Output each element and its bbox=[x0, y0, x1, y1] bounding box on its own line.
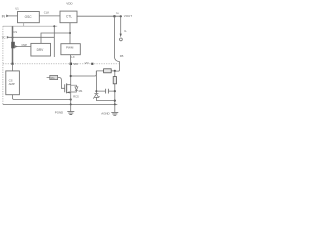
svg-text:CS: CS bbox=[13, 30, 17, 34]
svg-text:FB: FB bbox=[120, 54, 124, 58]
pin label SW lower bbox=[73, 62, 78, 66]
label PGND bbox=[55, 110, 63, 114]
left boundary bbox=[2, 26, 4, 104]
zener diode D3 bbox=[93, 94, 99, 99]
svg-text:CMP: CMP bbox=[22, 44, 28, 47]
label Io bbox=[116, 11, 119, 15]
wire IN arrow bbox=[9, 15, 18, 17]
node junction C bbox=[69, 32, 71, 34]
svg-text:Io: Io bbox=[116, 11, 119, 15]
wire U1 ground stub bbox=[23, 23, 25, 27]
wire load pin drop bbox=[120, 16, 122, 34]
node junction dot A bbox=[113, 15, 115, 17]
svg-text:RCS: RCS bbox=[73, 95, 79, 99]
svg-text:SW: SW bbox=[73, 62, 78, 66]
wire hop arc bbox=[114, 57, 119, 62]
block U1 (input stage) bbox=[18, 12, 40, 23]
wire block bottom bbox=[96, 100, 114, 102]
wire FB drop bbox=[115, 62, 120, 72]
svg-text:LX: LX bbox=[71, 55, 75, 59]
diode D1 (rectifier) bbox=[104, 69, 112, 73]
wire top-left rail bbox=[3, 25, 57, 27]
svg-text:RG: RG bbox=[51, 76, 55, 80]
bottom ground rail bbox=[3, 103, 117, 105]
svg-text:PWM: PWM bbox=[66, 45, 74, 49]
label CLK on wire bbox=[44, 10, 50, 14]
label at top of left net bbox=[13, 30, 17, 34]
wire U2 output to VOUT rail bbox=[77, 15, 122, 17]
ground PGND stem bbox=[70, 104, 72, 111]
node junction G bbox=[70, 75, 72, 77]
body diode D2 bbox=[71, 85, 77, 92]
wire block right vertical bbox=[114, 71, 116, 105]
svg-text:M1: M1 bbox=[79, 89, 83, 93]
node junction J bbox=[114, 100, 116, 102]
node IN label bbox=[2, 14, 6, 18]
svg-text:CTL: CTL bbox=[66, 15, 72, 19]
svg-text:AGND: AGND bbox=[101, 111, 109, 115]
wire rectifier top bbox=[96, 70, 115, 72]
node junction F bbox=[70, 98, 72, 100]
node junction I bbox=[114, 90, 116, 92]
load current arrow bbox=[120, 34, 122, 38]
node junction M bbox=[114, 103, 116, 105]
label M1 bbox=[79, 89, 83, 93]
wire U1 to U2 bbox=[39, 15, 60, 17]
svg-text:OSC: OSC bbox=[25, 15, 33, 19]
capacitor C1 bbox=[96, 90, 114, 92]
node junction K bbox=[95, 90, 97, 92]
pin square P2 (SW) bbox=[70, 63, 72, 65]
ground AGND symbol bbox=[111, 112, 118, 115]
wire SW branch to rectifier bbox=[71, 71, 97, 76]
label FB bbox=[120, 54, 124, 58]
transistor Q1 drain stub bbox=[67, 84, 71, 86]
block U4 (logic) bbox=[61, 44, 80, 55]
pin label FB boundary bbox=[85, 61, 90, 65]
wire horizontal into left node bbox=[9, 36, 54, 38]
label IL bbox=[124, 29, 127, 33]
node junction dot B bbox=[120, 15, 122, 17]
svg-text:DRV: DRV bbox=[37, 48, 45, 52]
svg-text:U1: U1 bbox=[15, 6, 19, 10]
svg-text:CLK: CLK bbox=[44, 10, 50, 14]
svg-text:VOUT: VOUT bbox=[124, 14, 133, 18]
wire branch to U3 bbox=[41, 33, 70, 43]
pin label SW upper bbox=[71, 55, 75, 59]
wire gate left stub bbox=[47, 77, 50, 79]
node junction H bbox=[114, 70, 116, 72]
svg-text:VDD: VDD bbox=[66, 1, 73, 5]
resistor R1 on right branch bbox=[113, 77, 116, 84]
wire SW vertical bbox=[69, 55, 71, 105]
block U2 (control) bbox=[60, 11, 77, 23]
svg-text:IL: IL bbox=[124, 29, 127, 33]
transistor Q1 channel bar bbox=[66, 83, 68, 93]
transistor Q1 gate bar bbox=[64, 84, 66, 92]
pin circle (load terminal) bbox=[120, 38, 123, 41]
svg-text:VC: VC bbox=[2, 36, 6, 40]
wire VOUT drop from rail bbox=[113, 16, 115, 57]
svg-text:PGND: PGND bbox=[55, 110, 63, 114]
wire into U3 left with arrow bbox=[15, 46, 31, 48]
pin square P3 (VOUT sense) bbox=[91, 63, 93, 65]
wire box5 feed bbox=[12, 64, 14, 71]
label VOUT bbox=[124, 14, 133, 18]
wire block left vertical bbox=[95, 71, 97, 93]
chip boundary dashed bbox=[3, 63, 119, 65]
wire comp feedback: down and left bbox=[53, 26, 55, 57]
node junction D bbox=[53, 25, 55, 27]
svg-text:IN: IN bbox=[2, 14, 6, 18]
arrowhead VREF bbox=[7, 36, 10, 39]
svg-text:VO: VO bbox=[85, 61, 90, 65]
transistor Q1 source stub with arrow bbox=[67, 91, 71, 93]
ground AGND stem bbox=[114, 104, 116, 112]
block U3 (driver) bbox=[31, 43, 51, 56]
label AGND bbox=[101, 111, 109, 115]
label VDD above U2 bbox=[66, 1, 73, 5]
svg-text:AMP: AMP bbox=[9, 82, 15, 86]
label above U1 bbox=[15, 6, 19, 10]
label RCS bbox=[73, 95, 79, 99]
pin square P1 bbox=[11, 63, 13, 65]
ground PGND symbol bbox=[67, 112, 74, 115]
node junction L bbox=[70, 103, 72, 105]
wire left vertical net bbox=[12, 26, 14, 64]
wire box5 bottom to rail bbox=[13, 95, 71, 100]
label VREF bbox=[2, 36, 6, 40]
block U5 (sense) bbox=[6, 71, 20, 95]
label CMP on wire bbox=[22, 44, 28, 47]
wire U2 bottom bbox=[69, 23, 71, 44]
node junction E bbox=[12, 37, 14, 39]
component blob on left net (sense element) bbox=[11, 42, 15, 49]
wire gate to transistor bbox=[58, 78, 65, 89]
gate resistor RG bbox=[50, 75, 58, 79]
arrowhead into sense element bbox=[15, 45, 18, 48]
